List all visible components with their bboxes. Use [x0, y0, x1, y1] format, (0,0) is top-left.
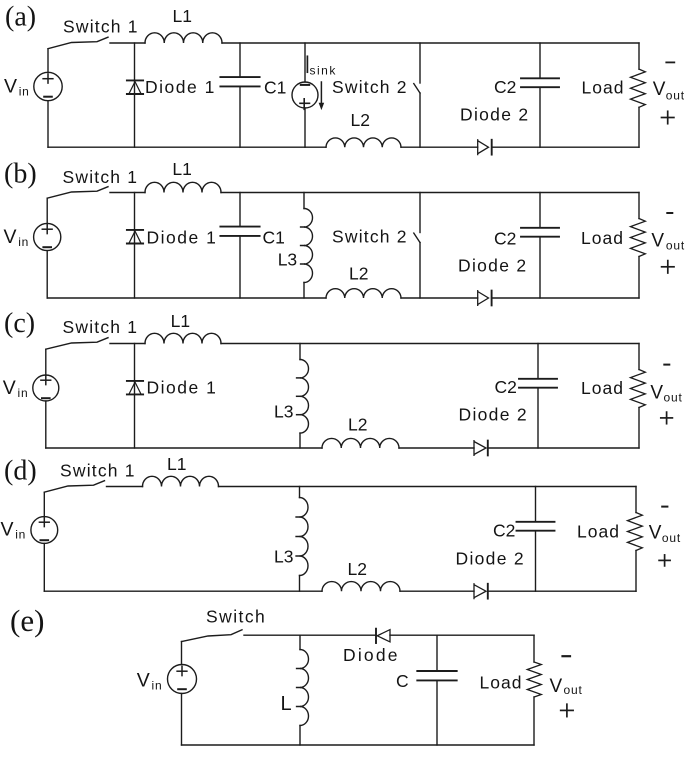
wire top rail (c) — [221, 343, 639, 345]
capacitor C1 — [220, 77, 259, 86]
svg-text:L: L — [281, 693, 292, 715]
svg-text:in: in — [18, 386, 29, 400]
label Vout (b) — [651, 231, 685, 253]
resistor Load (c) — [631, 370, 646, 408]
svg-text:L1: L1 — [171, 311, 190, 331]
svg-text:Switch 2: Switch 2 — [332, 77, 408, 97]
svg-text:V: V — [137, 669, 150, 691]
wire L3 branch lower (b) — [303, 283, 305, 299]
wire bottom rail left (b) — [47, 297, 326, 299]
wire Vin bottom lead (d) — [43, 543, 45, 591]
svg-text:V: V — [550, 676, 563, 697]
inductor L1 (a) — [145, 33, 222, 43]
svg-text:Diode 2: Diode 2 — [458, 256, 527, 276]
wire C1 branch lower (a) — [239, 86, 241, 147]
voltage source Vin (a) — [34, 72, 62, 100]
wire C2 branch lower (c) — [537, 388, 539, 448]
svg-text:(b): (b) — [4, 159, 37, 190]
resistor Load (b) — [631, 219, 646, 257]
label plus (e) — [561, 704, 573, 716]
label plus (d) — [659, 555, 670, 566]
wire C1 branch lower (b) — [239, 236, 241, 298]
svg-text:C2: C2 — [493, 521, 515, 541]
wire top rail (a) — [222, 42, 639, 44]
svg-text:L3: L3 — [274, 402, 293, 422]
label Vout (a) — [653, 79, 685, 102]
label minus (e) — [563, 655, 571, 657]
label Vin (e) — [137, 669, 163, 692]
label minus (c) — [664, 364, 669, 366]
svg-text:in: in — [18, 235, 29, 249]
wire Vin top lead (a) — [47, 49, 49, 72]
svg-text:out: out — [666, 238, 685, 252]
diode D2 (d) — [474, 584, 488, 599]
voltage source Vin (d) — [31, 517, 58, 544]
wire load branch lower (a) — [638, 107, 640, 147]
svg-text:L2: L2 — [348, 415, 367, 435]
wire top rail left (c) — [110, 343, 145, 345]
diode D2 (c) — [474, 441, 488, 456]
svg-text:C: C — [396, 671, 409, 691]
label plus (c) — [661, 412, 673, 424]
svg-text:Switch 1: Switch 1 — [63, 17, 139, 37]
inductor L2 (d) — [322, 582, 400, 592]
voltage source Vin (c) — [33, 375, 59, 401]
label Vin (a) — [4, 75, 30, 98]
svg-text:in: in — [15, 527, 26, 541]
wire C2 branch lower (b) — [539, 237, 541, 298]
wire Vin top lead (d) — [43, 492, 45, 516]
label minus (a) — [666, 61, 674, 63]
svg-text:V: V — [649, 523, 662, 544]
inductor L1 (c) — [145, 333, 221, 343]
svg-text:sink: sink — [310, 64, 337, 78]
diode D (e) — [376, 629, 390, 643]
wire top rail (b) — [221, 192, 639, 194]
label Vin (b) — [4, 226, 30, 249]
wire bottom rail right (b) — [492, 297, 639, 299]
switch blade S1 (b) — [47, 187, 108, 199]
label Isink (a) — [307, 56, 336, 77]
svg-text:out: out — [664, 391, 683, 405]
wire load branch lower (d) — [635, 551, 637, 592]
wire C branch lower (e) — [436, 680, 438, 745]
svg-text:Diode 1: Diode 1 — [145, 77, 216, 97]
wire bottom rail left (d) — [44, 590, 322, 592]
wire Isink branch lower (a) — [304, 108, 306, 147]
svg-text:Switch 1: Switch 1 — [63, 167, 139, 187]
svg-text:Diode 2: Diode 2 — [456, 549, 525, 569]
svg-text:L1: L1 — [173, 6, 192, 26]
svg-text:C1: C1 — [263, 228, 285, 248]
svg-text:L1: L1 — [172, 159, 191, 179]
voltage source Vin (b) — [34, 223, 61, 250]
svg-text:(d): (d) — [4, 456, 37, 487]
svg-text:V: V — [1, 518, 14, 540]
svg-text:V: V — [4, 75, 17, 97]
label plus (a) — [662, 111, 674, 123]
label minus (d) — [662, 506, 667, 508]
wire top rail left (d) — [107, 486, 143, 488]
svg-text:V: V — [653, 79, 666, 100]
wire Vin top lead (e) — [181, 642, 183, 665]
svg-text:Diode: Diode — [343, 645, 400, 665]
wire load branch upper (a) — [638, 43, 640, 69]
wire L3 branch upper (d) — [299, 487, 301, 498]
label minus (b) — [667, 212, 672, 214]
current sink Isink (a) — [292, 82, 318, 109]
wire Vin bottom lead (a) — [47, 101, 49, 148]
wire bottom rail right (c) — [488, 447, 639, 449]
svg-text:V: V — [4, 226, 17, 248]
wire Vin bottom lead (c) — [45, 401, 47, 448]
wire bottom rail right (d) — [488, 590, 636, 592]
wire C2 branch upper (a) — [539, 43, 541, 78]
switch blade S1 (a) — [48, 37, 108, 49]
diode D1 (a) — [127, 80, 143, 94]
svg-text:in: in — [19, 84, 30, 98]
svg-text:Switch 1: Switch 1 — [60, 461, 136, 481]
wire diode branch (a) — [134, 43, 136, 147]
switch S2 (b) — [414, 193, 420, 299]
svg-text:C2: C2 — [495, 377, 517, 397]
resistor Load (a) — [631, 69, 646, 107]
svg-text:(a): (a) — [5, 2, 36, 33]
wire Isink branch upper (a) — [304, 43, 306, 82]
wire Vin bottom lead (b) — [46, 251, 48, 298]
wire Vin top lead (c) — [45, 349, 47, 375]
wire C2 branch lower (d) — [535, 531, 537, 592]
wire L3 branch upper (c) — [299, 344, 301, 360]
svg-text:(c): (c) — [4, 308, 35, 339]
voltage source Vin (e) — [168, 665, 197, 694]
inductor L3 (b) — [301, 209, 313, 283]
wire L3 branch upper (b) — [303, 193, 305, 209]
inductor L (e) — [297, 650, 309, 726]
switch blade S (e) — [182, 630, 243, 642]
svg-text:out: out — [662, 531, 681, 545]
svg-text:Load: Load — [582, 78, 625, 98]
switch blade S1 (c) — [46, 338, 108, 350]
svg-text:Diode 2: Diode 2 — [460, 104, 529, 124]
wire load branch lower (c) — [638, 408, 640, 449]
wire load branch lower (b) — [638, 257, 640, 299]
label Vout (d) — [649, 523, 681, 546]
resistor Load resistor (e) — [527, 662, 541, 697]
wire top rail right (e) — [390, 634, 534, 636]
svg-text:Switch: Switch — [206, 607, 266, 627]
wire top rail left (e) — [244, 634, 376, 636]
wire bottom rail mid (d) — [400, 590, 474, 592]
wire load branch lower (e) — [533, 697, 535, 745]
arrow Isink current direction — [319, 82, 323, 109]
svg-text:V: V — [650, 382, 663, 403]
wire C1 branch upper (b) — [239, 193, 241, 227]
inductor L2 (c) — [322, 438, 399, 448]
svg-text:L2: L2 — [348, 559, 367, 579]
wire Vin bottom lead (e) — [181, 694, 183, 746]
diode D1 (c) — [127, 381, 143, 395]
inductor L3 (c) — [297, 360, 309, 434]
wire load branch upper (d) — [635, 487, 637, 513]
inductor L1 (d) — [143, 476, 219, 486]
wire bottom rail left (a) — [48, 146, 326, 148]
diode D2 (b) — [478, 291, 492, 306]
svg-text:Load: Load — [581, 228, 624, 248]
wire bottom rail (e) — [182, 744, 535, 746]
svg-text:L1: L1 — [167, 454, 186, 474]
wire diode branch (b) — [134, 193, 136, 299]
svg-text:Diode 2: Diode 2 — [459, 405, 528, 425]
diode D2 (a) — [478, 140, 492, 155]
wire load branch upper (b) — [638, 193, 640, 219]
capacitor C2 (d) — [517, 522, 555, 531]
svg-text:in: in — [152, 678, 163, 692]
wire bottom rail mid (a) — [401, 146, 478, 148]
svg-text:C1: C1 — [264, 77, 286, 97]
svg-text:Diode 1: Diode 1 — [147, 228, 218, 248]
svg-text:C2: C2 — [494, 229, 516, 249]
svg-text:(e): (e) — [10, 603, 44, 638]
wire C2 branch upper (b) — [539, 193, 541, 228]
switch S2 (a) — [414, 43, 420, 147]
wire Vin top lead (b) — [46, 198, 48, 223]
svg-text:out: out — [564, 683, 583, 697]
svg-text:L3: L3 — [274, 547, 293, 567]
wire C1 branch upper (a) — [239, 43, 241, 77]
capacitor C2 (c) — [519, 379, 557, 388]
svg-text:L3: L3 — [278, 250, 297, 270]
inductor L2 (b) — [326, 289, 401, 298]
wire C2 branch upper (d) — [535, 487, 537, 522]
wire bottom rail mid (c) — [399, 447, 474, 449]
svg-text:V: V — [3, 377, 16, 399]
wire load branch upper (c) — [638, 344, 640, 370]
svg-text:Load: Load — [577, 522, 620, 542]
capacitor C2 (a) — [521, 78, 559, 87]
wire diode branch (c) — [134, 344, 136, 449]
svg-text:Load: Load — [581, 378, 624, 398]
svg-text:L2: L2 — [349, 264, 368, 284]
wire C2 branch lower (a) — [539, 87, 541, 147]
wire bottom rail mid (b) — [401, 297, 478, 299]
wire C2 branch upper (c) — [537, 344, 539, 379]
wire L branch upper (e) — [299, 635, 301, 649]
capacitor C (e) — [417, 671, 456, 680]
label Vout (c) — [650, 382, 682, 404]
svg-text:L2: L2 — [351, 110, 370, 130]
wire top rail left (b) — [110, 192, 145, 194]
wire L branch lower (e) — [299, 726, 301, 746]
label Vout (e) — [550, 676, 583, 697]
svg-text:Switch 1: Switch 1 — [63, 317, 139, 337]
resistor Load (d) — [628, 513, 643, 551]
label plus (b) — [662, 261, 674, 273]
switch blade S1 (d) — [44, 481, 104, 493]
inductor L3 (d) — [296, 498, 308, 576]
svg-text:Load: Load — [480, 672, 523, 692]
svg-text:V: V — [651, 231, 664, 252]
wire L3 branch lower (d) — [299, 576, 301, 592]
wire bottom rail left (c) — [46, 447, 322, 449]
wire C branch upper (e) — [436, 635, 438, 671]
svg-text:Switch 2: Switch 2 — [332, 227, 408, 247]
inductor L2 (a) — [326, 138, 401, 147]
diode D1 (b) — [127, 230, 143, 244]
inductor L1 (b) — [145, 182, 221, 192]
wire load branch upper (e) — [533, 635, 535, 662]
svg-text:out: out — [666, 88, 685, 102]
svg-text:C2: C2 — [494, 77, 516, 97]
svg-text:Diode 1: Diode 1 — [147, 378, 218, 398]
label Vin (d) — [1, 518, 27, 541]
wire L3 branch lower (c) — [299, 433, 301, 448]
wire top rail left (a) — [110, 42, 145, 44]
wire top rail (d) — [219, 486, 637, 488]
capacitor C1 (b) — [220, 227, 259, 236]
capacitor C2 (b) — [521, 228, 559, 237]
label Vin (c) — [3, 377, 29, 400]
wire bottom rail right (a) — [492, 146, 639, 148]
